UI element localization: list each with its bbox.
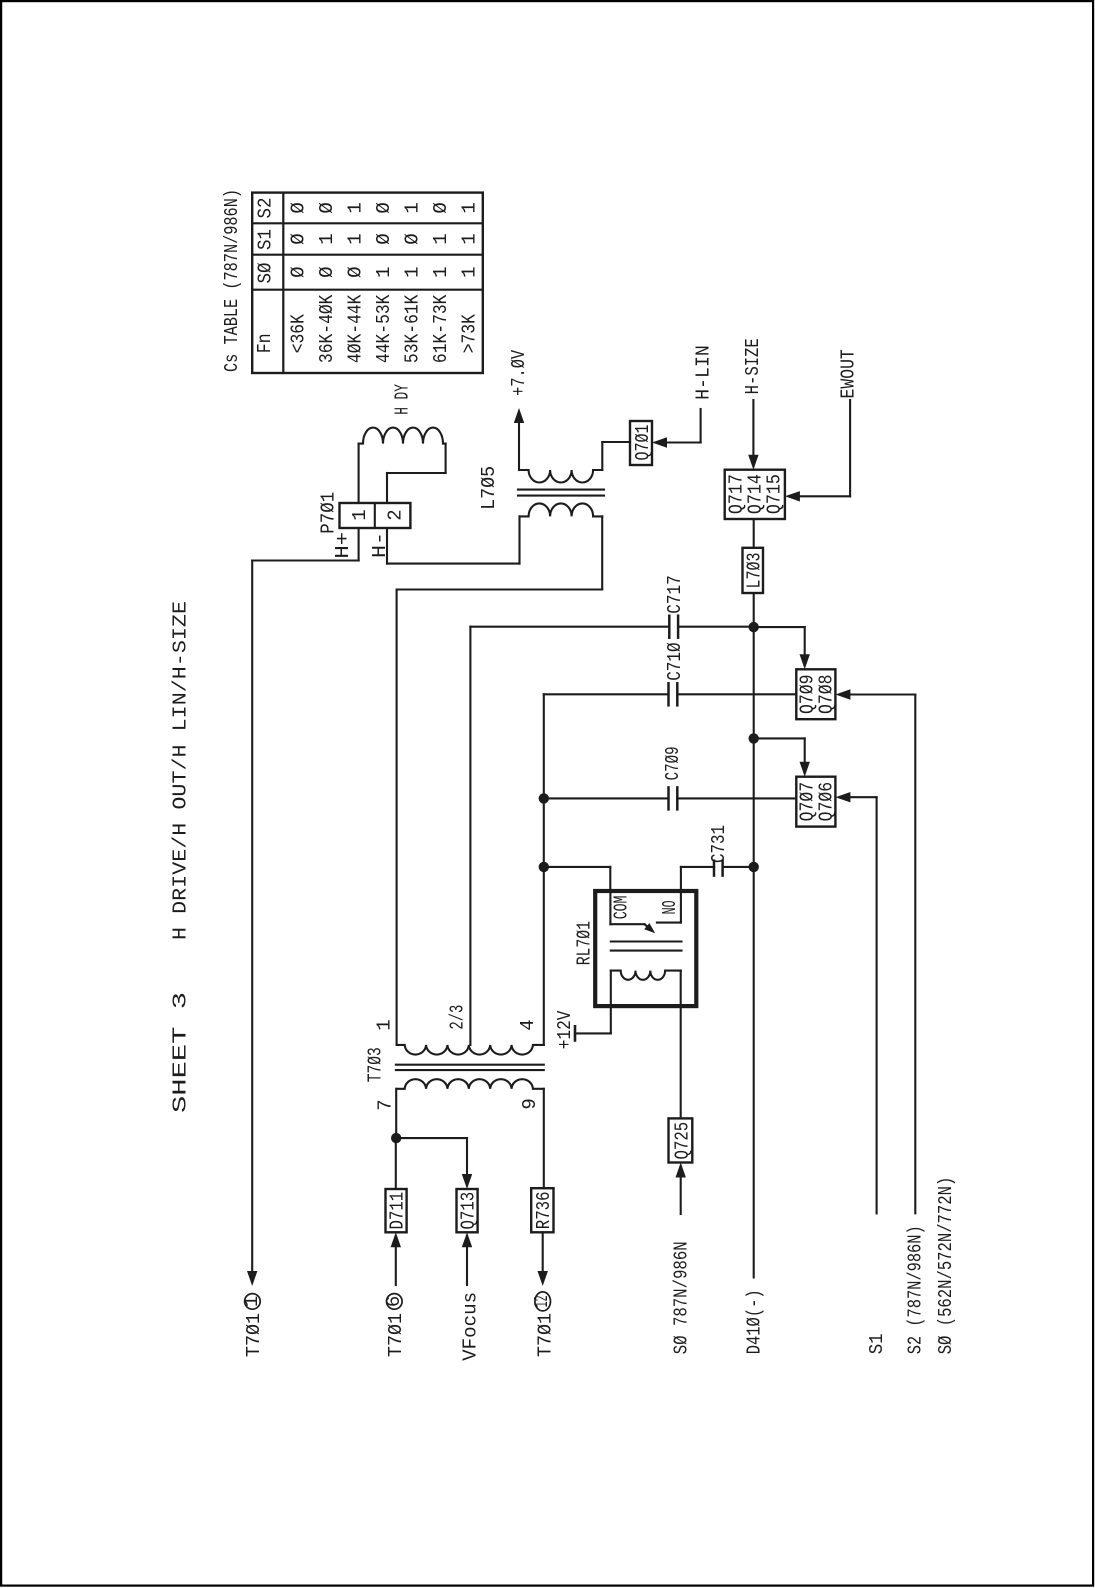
svg-text:+7.ØV: +7.ØV (508, 349, 530, 395)
svg-text:Ø: Ø (373, 233, 395, 244)
svg-text:Q7Ø8: Q7Ø8 (816, 675, 838, 715)
svg-text:S1: S1 (255, 229, 277, 250)
svg-text:SØ (562N/572N/772N): SØ (562N/572N/772N) (935, 1177, 957, 1355)
svg-text:>73K: >73K (459, 314, 481, 354)
svg-text:Ø: Ø (287, 266, 309, 277)
svg-text:S2: S2 (255, 198, 277, 219)
svg-text:C71Ø: C71Ø (664, 642, 686, 680)
svg-text:Q715: Q715 (764, 474, 786, 514)
svg-text:H DY: H DY (391, 384, 413, 415)
svg-text:<36K: <36K (287, 314, 309, 354)
svg-text:Cs TABLE (787N/986N): Cs TABLE (787N/986N) (221, 189, 243, 372)
svg-text:Ø: Ø (430, 202, 452, 213)
svg-text:1: 1 (316, 233, 338, 244)
svg-text:VFocus: VFocus (460, 1292, 482, 1361)
svg-text:Q725: Q725 (672, 1122, 694, 1160)
svg-text:EWOUT: EWOUT (838, 349, 860, 398)
svg-text:SØ 787N/986N: SØ 787N/986N (671, 1241, 693, 1354)
svg-text:1: 1 (344, 202, 366, 213)
svg-text:4ØK-44K: 4ØK-44K (344, 294, 366, 363)
svg-text:RL7Ø1: RL7Ø1 (574, 921, 596, 965)
svg-text:4: 4 (517, 1019, 539, 1030)
svg-text:2: 2 (385, 509, 407, 520)
svg-text:SØ: SØ (255, 263, 277, 284)
svg-text:Fn: Fn (254, 333, 276, 353)
svg-text:Ø: Ø (316, 266, 338, 277)
svg-text:T7Ø1: T7Ø1 (534, 1313, 556, 1357)
svg-text:H+: H+ (332, 532, 354, 559)
svg-text:S1: S1 (866, 1333, 888, 1354)
svg-text:SHEET 3: SHEET 3 (170, 992, 192, 1113)
svg-text:T7Ø1: T7Ø1 (243, 1313, 265, 1357)
svg-text:1: 1 (459, 233, 481, 244)
svg-text:T7Ø3: T7Ø3 (365, 1047, 387, 1082)
svg-text:D711: D711 (386, 1192, 408, 1230)
svg-text:1: 1 (402, 266, 424, 277)
svg-text:L7Ø3: L7Ø3 (743, 553, 765, 589)
svg-text:P7Ø1: P7Ø1 (318, 492, 340, 534)
svg-text:Ø: Ø (373, 202, 395, 213)
svg-text:61K-73K: 61K-73K (430, 294, 452, 363)
svg-text:1: 1 (402, 202, 424, 213)
svg-text:R736: R736 (533, 1192, 555, 1230)
svg-text:1: 1 (430, 266, 452, 277)
svg-text:H-SIZE: H-SIZE (742, 338, 764, 394)
svg-text:2/3: 2/3 (447, 1005, 469, 1030)
svg-text:1: 1 (349, 509, 371, 520)
svg-text:C731: C731 (708, 825, 730, 863)
svg-text:H-LIN: H-LIN (693, 345, 715, 400)
svg-text:D41Ø(-): D41Ø(-) (744, 1289, 766, 1354)
svg-text:12: 12 (531, 1295, 553, 1307)
svg-text:1: 1 (430, 233, 452, 244)
svg-text:T7Ø1: T7Ø1 (385, 1313, 407, 1357)
svg-text:Q7Ø6: Q7Ø6 (816, 782, 838, 822)
svg-text:COM: COM (610, 896, 632, 920)
svg-text:1: 1 (344, 233, 366, 244)
svg-text:1: 1 (459, 266, 481, 277)
svg-text:+12V: +12V (554, 1010, 576, 1049)
svg-text:53K-61K: 53K-61K (402, 294, 424, 363)
svg-text:1: 1 (373, 266, 395, 277)
svg-text:36K-4ØK: 36K-4ØK (316, 294, 338, 363)
svg-text:1: 1 (373, 1019, 395, 1030)
svg-text:1: 1 (241, 1296, 263, 1307)
svg-text:7: 7 (374, 1099, 396, 1110)
svg-text:Ø: Ø (316, 202, 338, 213)
svg-text:Ø: Ø (402, 233, 424, 244)
svg-text:NO: NO (659, 900, 681, 914)
svg-text:L7Ø5: L7Ø5 (478, 466, 500, 510)
svg-text:S2 (787N/986N): S2 (787N/986N) (905, 1225, 927, 1354)
svg-text:Ø: Ø (344, 266, 366, 277)
svg-text:1: 1 (459, 202, 481, 213)
svg-text:H DRIVE/H OUT/H LIN/H-SIZE: H DRIVE/H OUT/H LIN/H-SIZE (170, 601, 192, 940)
svg-text:C7Ø9: C7Ø9 (662, 746, 684, 780)
svg-text:6: 6 (383, 1296, 405, 1307)
svg-text:Q7Ø1: Q7Ø1 (632, 425, 654, 461)
svg-text:Q713: Q713 (457, 1192, 479, 1230)
svg-text:44K-53K: 44K-53K (373, 294, 395, 363)
svg-text:Ø: Ø (287, 233, 309, 244)
svg-text:C717: C717 (664, 575, 686, 613)
svg-text:9: 9 (519, 1098, 541, 1109)
svg-text:Ø: Ø (287, 202, 309, 213)
